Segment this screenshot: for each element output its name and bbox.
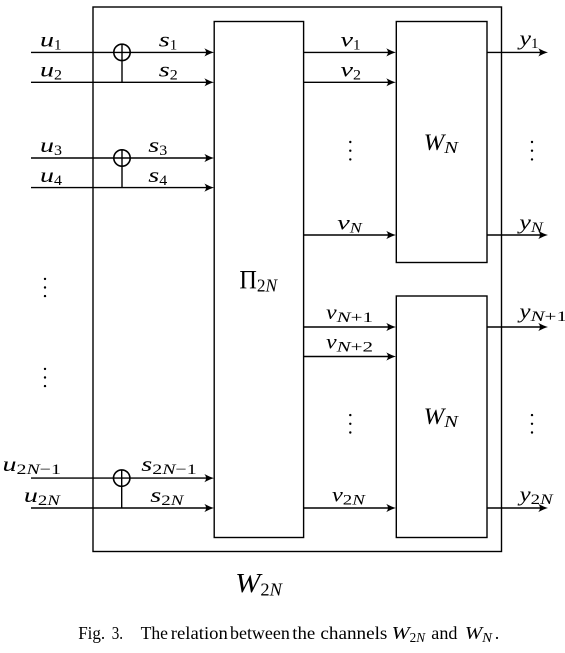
label WN bottom: [424, 404, 460, 431]
svg-text:The: The: [141, 623, 168, 643]
wire vN+2: [304, 352, 396, 360]
caption Fig. 3: [78, 623, 499, 645]
label vN+1: [326, 300, 373, 326]
block Pi2N: [214, 22, 303, 538]
label s2: [159, 58, 178, 84]
dots y column top: [531, 141, 533, 161]
label u4: [40, 163, 63, 189]
svg-text:channels: channels: [320, 623, 387, 643]
wire yN+1: [487, 323, 548, 331]
label u3: [40, 133, 62, 159]
svg-text:and: and: [431, 623, 457, 643]
wire v1: [304, 48, 396, 56]
wire u1/s1: [31, 48, 214, 56]
wire u4/s4: [31, 184, 214, 192]
label s1: [159, 28, 178, 54]
wire v2N: [304, 504, 396, 512]
svg-text:between: between: [230, 623, 290, 643]
label vN: [337, 211, 363, 237]
label u2: [40, 58, 62, 84]
svg-text:Fig.: Fig.: [78, 623, 105, 643]
label s3: [148, 133, 167, 159]
dots y column bottom: [531, 414, 533, 434]
wire u2N/s2N: [31, 504, 214, 512]
wire vN+1: [304, 323, 396, 331]
svg-text:the: the: [292, 623, 315, 643]
dots left upper: [44, 278, 46, 298]
wire y1: [487, 48, 548, 56]
label s4: [148, 163, 168, 189]
label vN+2: [326, 329, 373, 355]
svg-text:relation: relation: [171, 623, 228, 643]
wire yN: [487, 231, 548, 239]
label s2N: [150, 483, 184, 509]
wire vN: [304, 231, 396, 239]
wire u2/s2: [31, 78, 214, 86]
label u2N: [24, 483, 61, 509]
svg-text:3.: 3.: [112, 623, 123, 643]
dots left lower: [44, 368, 46, 388]
label u2N-1: [3, 452, 62, 478]
label v1: [341, 28, 361, 54]
label u1: [40, 28, 62, 54]
XOR node 1: [114, 44, 130, 82]
block WN bottom: [396, 296, 487, 538]
label WN top: [424, 130, 460, 157]
label y1: [517, 26, 538, 52]
outer box W2N: [93, 7, 502, 552]
svg-text:WN.: WN.: [465, 623, 499, 645]
label W2N under box: [235, 568, 283, 600]
label v2: [341, 58, 362, 84]
dots v column top: [349, 141, 351, 161]
wire v2: [304, 78, 396, 86]
label y2N: [517, 482, 554, 508]
wire y2N: [487, 504, 548, 512]
XOR node 2: [114, 150, 130, 188]
wire u3/s3: [31, 154, 214, 162]
label Pi2N: [239, 266, 278, 296]
label yN+1: [517, 299, 565, 325]
label yN: [517, 210, 544, 236]
block WN top: [396, 22, 487, 263]
wire u2N-1/s2N-1: [31, 474, 214, 482]
label v2N: [332, 483, 366, 509]
XOR node 3: [114, 470, 130, 508]
label s2N-1: [141, 452, 197, 478]
dots v column bottom: [349, 414, 351, 434]
